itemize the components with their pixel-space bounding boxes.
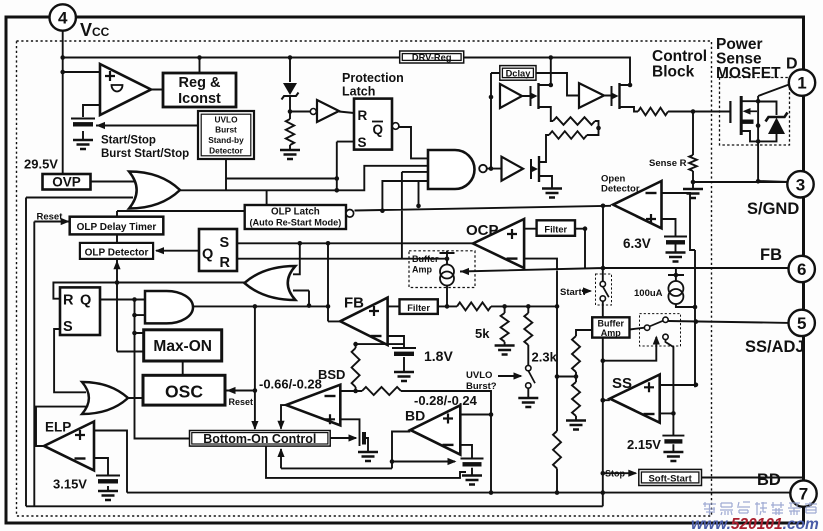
svg-text:Bottom-On Control: Bottom-On Control bbox=[203, 432, 316, 446]
svg-text:Q: Q bbox=[202, 247, 213, 263]
svg-text:Soft-Start: Soft-Start bbox=[648, 474, 692, 485]
svg-text:www.520101.com: www.520101.com bbox=[691, 516, 819, 531]
svg-text:SS/ADJ: SS/ADJ bbox=[745, 338, 805, 356]
svg-text:R: R bbox=[358, 108, 368, 123]
svg-text:BSD: BSD bbox=[318, 367, 345, 382]
svg-text:5: 5 bbox=[797, 314, 806, 333]
svg-text:Reg &: Reg & bbox=[179, 75, 221, 91]
svg-text:Amp: Amp bbox=[601, 328, 622, 338]
svg-text:OSC: OSC bbox=[165, 382, 203, 402]
svg-text:-0.28/-0.24: -0.28/-0.24 bbox=[414, 393, 478, 408]
svg-text:ELP: ELP bbox=[45, 420, 71, 435]
svg-text:OCP: OCP bbox=[466, 222, 499, 239]
svg-text:R: R bbox=[63, 293, 74, 309]
svg-text:3: 3 bbox=[796, 175, 805, 194]
svg-text:Start/Stop: Start/Stop bbox=[101, 135, 156, 147]
svg-text:MOSFET: MOSFET bbox=[716, 65, 781, 82]
svg-text:6: 6 bbox=[797, 260, 806, 279]
svg-text:Iconst: Iconst bbox=[178, 91, 221, 107]
svg-text:Sense R: Sense R bbox=[649, 158, 687, 169]
svg-text:SS: SS bbox=[612, 375, 632, 392]
svg-text:Dclay: Dclay bbox=[506, 69, 532, 79]
svg-text:Burst?: Burst? bbox=[466, 381, 497, 392]
svg-text:7: 7 bbox=[799, 485, 808, 504]
svg-text:Reset: Reset bbox=[229, 397, 254, 407]
svg-text:UVLO: UVLO bbox=[466, 370, 492, 381]
svg-text:Buffer: Buffer bbox=[412, 254, 439, 264]
svg-text:Burst Start/Stop: Burst Start/Stop bbox=[101, 148, 189, 160]
svg-text:S: S bbox=[63, 319, 73, 335]
svg-text:Amp: Amp bbox=[412, 265, 433, 275]
svg-text:Stop: Stop bbox=[605, 469, 625, 479]
svg-text:OLP Detector: OLP Detector bbox=[85, 248, 149, 259]
svg-text:3.15V: 3.15V bbox=[53, 477, 87, 492]
svg-text:Start?: Start? bbox=[560, 287, 588, 298]
svg-text:S/GND: S/GND bbox=[747, 200, 799, 218]
svg-text:Stand-by: Stand-by bbox=[208, 135, 244, 145]
svg-text:Reset: Reset bbox=[37, 212, 64, 223]
svg-text:2.3k: 2.3k bbox=[532, 350, 558, 365]
svg-text:Detector: Detector bbox=[601, 184, 640, 195]
svg-text:Detector: Detector bbox=[209, 146, 243, 156]
svg-text:6.3V: 6.3V bbox=[623, 236, 651, 251]
svg-text:4: 4 bbox=[58, 9, 68, 28]
svg-text:Burst: Burst bbox=[215, 125, 237, 135]
svg-text:5k: 5k bbox=[475, 326, 490, 341]
svg-text:DRV-Reg: DRV-Reg bbox=[412, 53, 452, 63]
svg-text:(Auto Re-Start Mode): (Auto Re-Start Mode) bbox=[249, 218, 341, 228]
svg-text:Buffer: Buffer bbox=[598, 319, 625, 329]
svg-text:Block: Block bbox=[652, 64, 695, 81]
svg-text:100uA: 100uA bbox=[634, 288, 663, 299]
svg-text:Control: Control bbox=[652, 48, 707, 65]
svg-text:Q: Q bbox=[80, 293, 91, 309]
svg-text:S: S bbox=[220, 235, 230, 251]
svg-text:FB: FB bbox=[760, 246, 782, 264]
svg-text:Filter: Filter bbox=[544, 225, 567, 235]
svg-text:BD: BD bbox=[757, 471, 781, 489]
svg-text:Filter: Filter bbox=[407, 303, 430, 313]
svg-text:R: R bbox=[220, 255, 231, 271]
svg-text:1: 1 bbox=[797, 74, 806, 93]
svg-text:-0.66/-0.28: -0.66/-0.28 bbox=[259, 377, 322, 392]
svg-text:Latch: Latch bbox=[342, 85, 375, 99]
svg-text:Q: Q bbox=[373, 122, 384, 137]
svg-text:FB: FB bbox=[344, 295, 364, 312]
svg-text:2.15V: 2.15V bbox=[627, 437, 661, 452]
svg-text:Max-ON: Max-ON bbox=[153, 338, 212, 355]
svg-text:OLP Latch: OLP Latch bbox=[271, 207, 320, 218]
svg-text:OVP: OVP bbox=[52, 175, 81, 190]
svg-text:29.5V: 29.5V bbox=[24, 157, 58, 172]
svg-text:OLP Delay Timer: OLP Delay Timer bbox=[77, 222, 157, 233]
svg-text:BD: BD bbox=[405, 408, 425, 424]
svg-text:D: D bbox=[786, 56, 798, 73]
svg-text:Protection: Protection bbox=[342, 71, 404, 85]
svg-text:S: S bbox=[358, 135, 367, 150]
svg-text:UVLO: UVLO bbox=[214, 115, 238, 125]
svg-text:1.8V: 1.8V bbox=[424, 348, 453, 364]
